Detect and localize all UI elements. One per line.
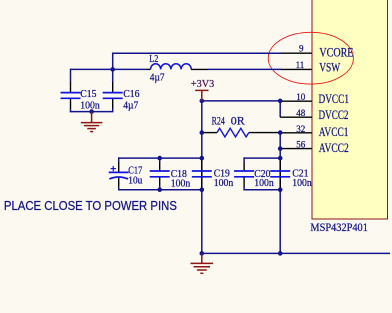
svg-text:100n: 100n [254, 178, 274, 189]
svg-text:56: 56 [296, 140, 306, 150]
svg-text:100n: 100n [171, 178, 191, 189]
svg-text:11: 11 [296, 60, 305, 70]
svg-text:C16: C16 [123, 89, 139, 100]
svg-text:0R: 0R [231, 115, 245, 127]
svg-text:100n: 100n [214, 178, 234, 189]
svg-text:DVCC1: DVCC1 [319, 92, 350, 106]
svg-text:C17: C17 [128, 165, 142, 176]
svg-text:AVCC1: AVCC1 [319, 125, 349, 139]
svg-text:10: 10 [296, 92, 306, 102]
svg-text:48: 48 [296, 108, 306, 118]
svg-text:4µ7: 4µ7 [123, 100, 138, 111]
svg-text:4µ7: 4µ7 [150, 72, 165, 83]
svg-text:R24: R24 [212, 115, 225, 127]
svg-text:MSP432P401: MSP432P401 [310, 220, 368, 234]
svg-text:VCORE: VCORE [319, 46, 353, 60]
svg-text:L2: L2 [149, 54, 158, 65]
svg-text:10u: 10u [128, 176, 143, 187]
svg-text:32: 32 [296, 124, 305, 134]
svg-text:100n: 100n [292, 178, 312, 189]
svg-text:PLACE CLOSE TO POWER PINS: PLACE CLOSE TO POWER PINS [4, 198, 177, 213]
svg-text:C15: C15 [80, 89, 96, 100]
svg-text:9: 9 [299, 44, 304, 54]
svg-text:100n: 100n [80, 100, 100, 111]
svg-text:VSW: VSW [319, 61, 340, 75]
svg-text:+3V3: +3V3 [191, 79, 214, 90]
svg-text:DVCC2: DVCC2 [319, 108, 349, 122]
svg-text:AVCC2: AVCC2 [319, 141, 349, 155]
